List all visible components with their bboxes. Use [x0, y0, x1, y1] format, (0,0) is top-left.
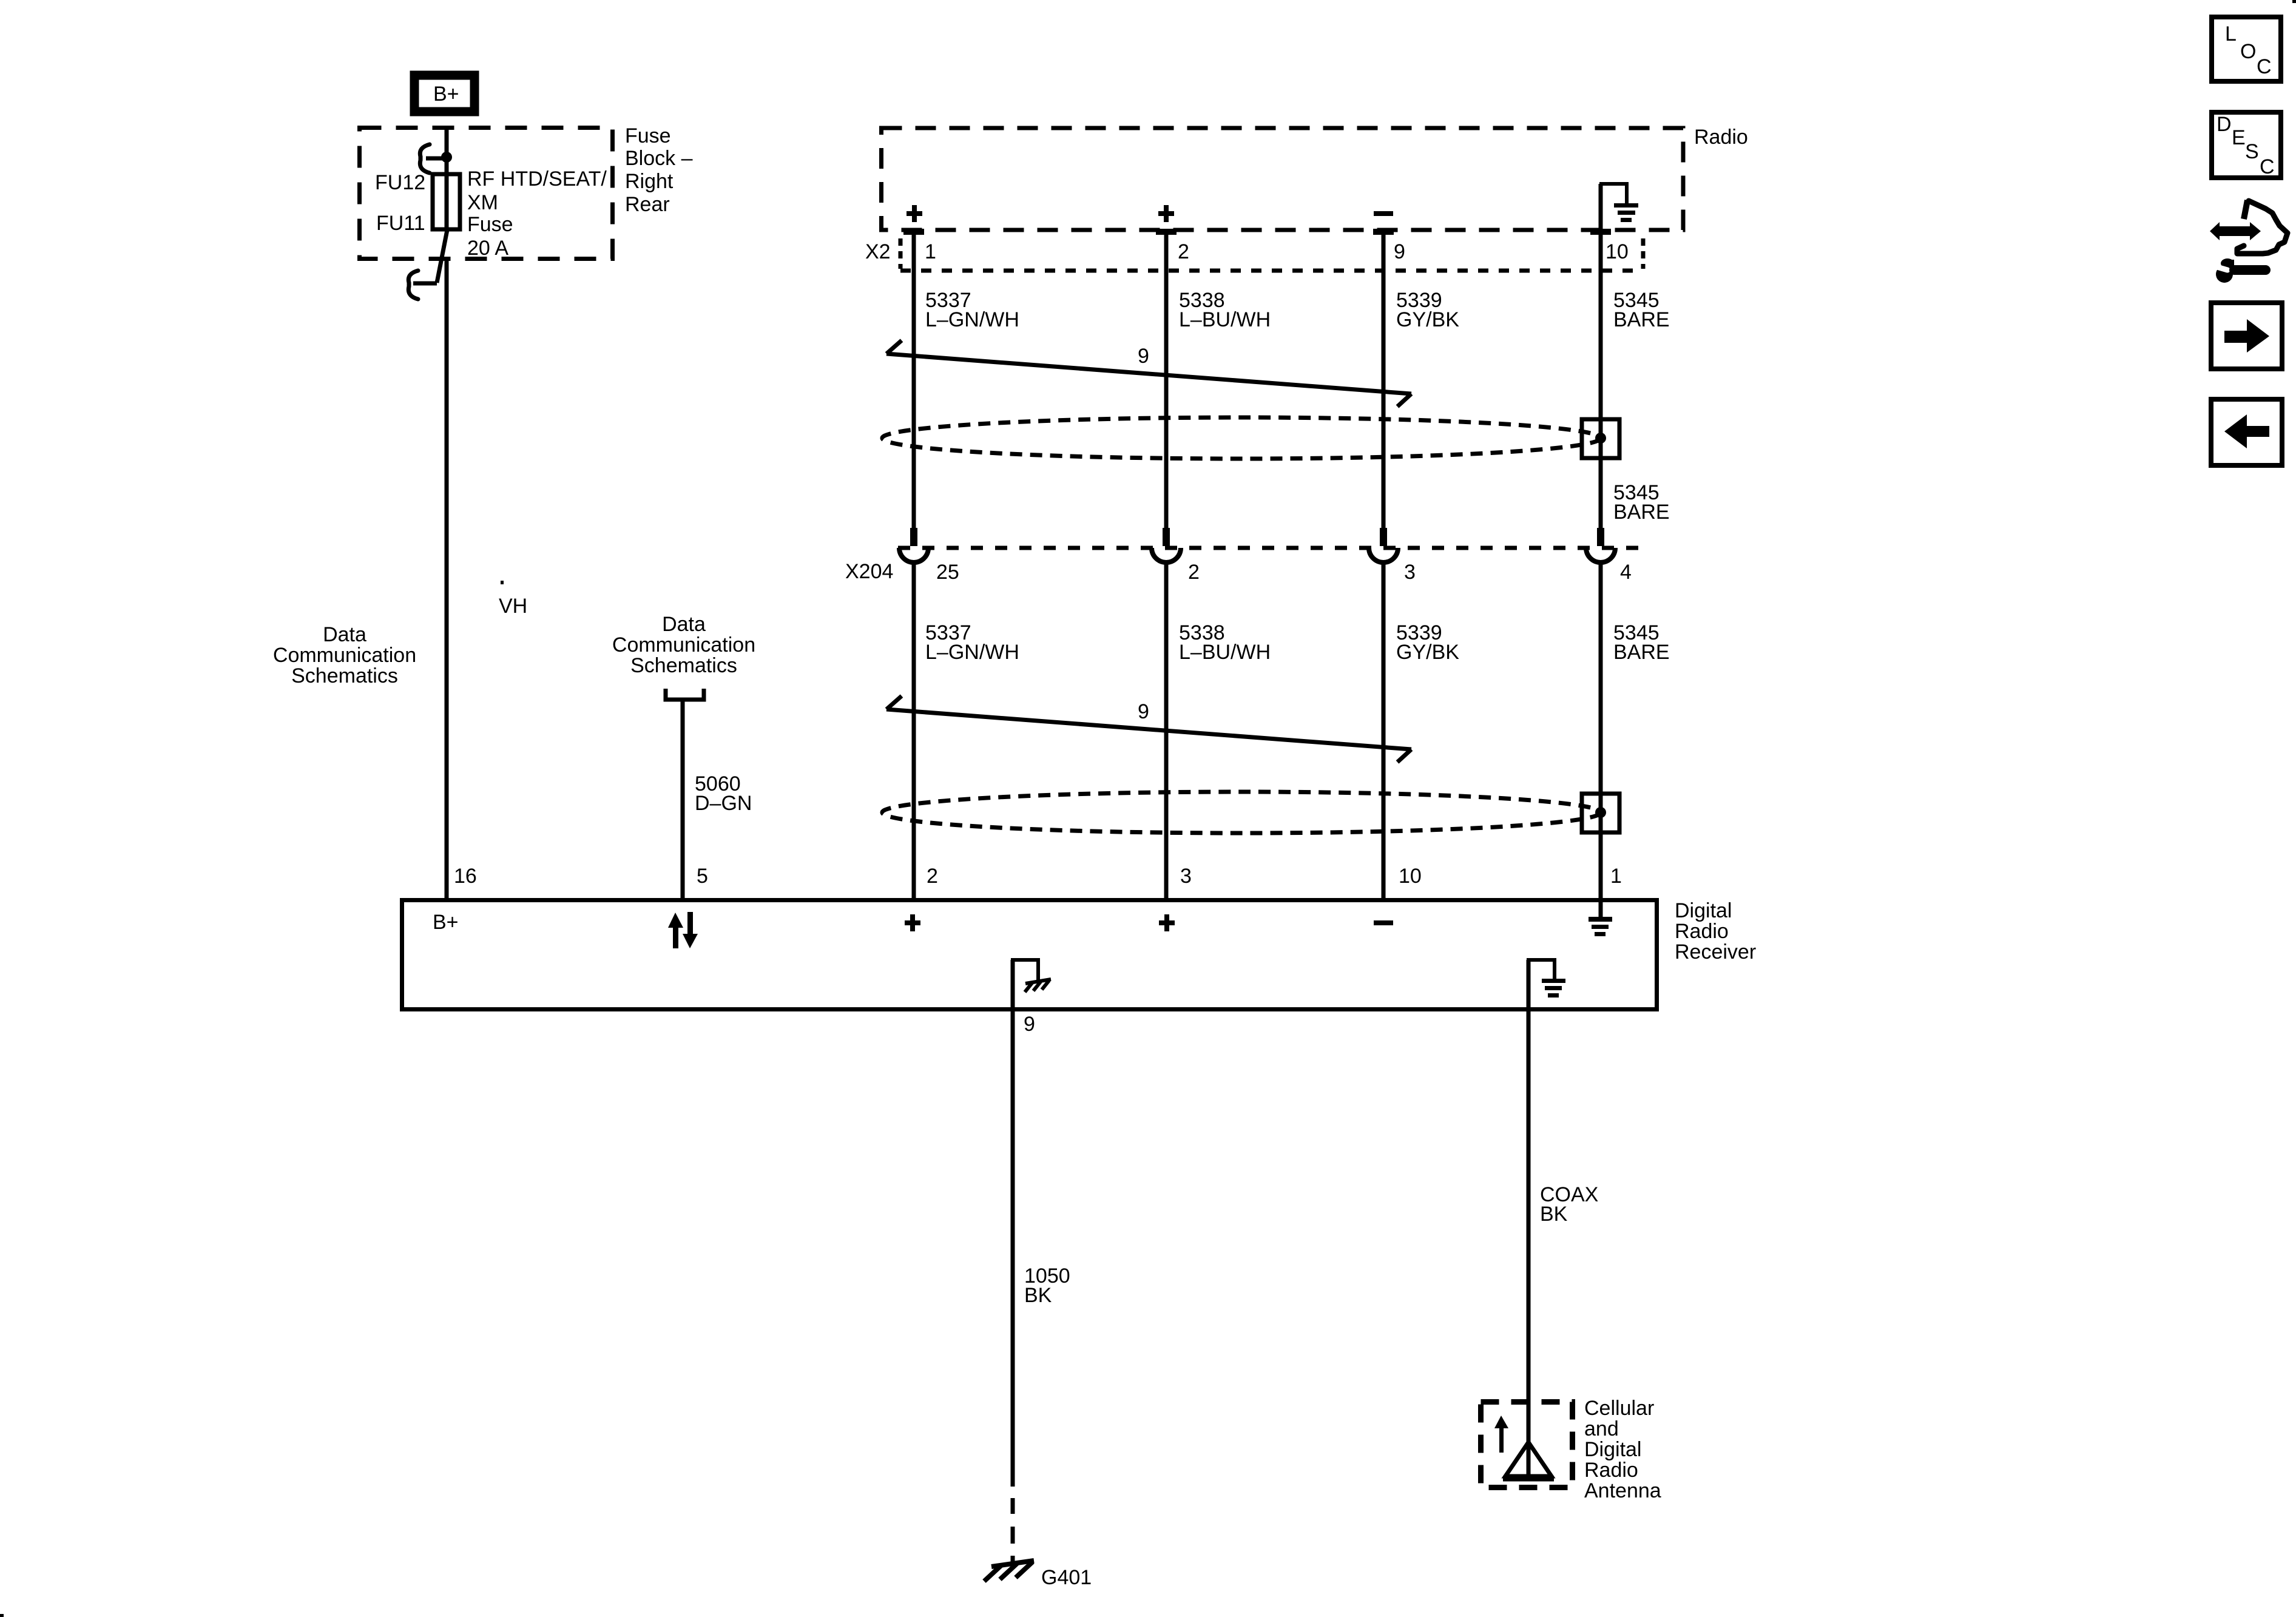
svg-text:BARE: BARE	[1613, 641, 1670, 664]
svg-text:and: and	[1584, 1417, 1619, 1440]
svg-text:Fuse: Fuse	[625, 124, 671, 147]
svg-text:X204: X204	[845, 560, 893, 583]
svg-text:Data: Data	[662, 613, 706, 636]
svg-text:L–GN/WH: L–GN/WH	[925, 308, 1019, 331]
svg-text:L–GN/WH: L–GN/WH	[925, 641, 1019, 664]
svg-text:X2: X2	[865, 240, 891, 263]
svg-text:Radio: Radio	[1584, 1459, 1638, 1482]
svg-text:3: 3	[1404, 561, 1416, 584]
svg-text:Radio: Radio	[1675, 920, 1729, 943]
svg-text:VH: VH	[499, 595, 527, 618]
svg-text:Schematics: Schematics	[630, 654, 737, 677]
svg-text:Digital: Digital	[1675, 899, 1732, 922]
svg-text:9: 9	[1024, 1013, 1035, 1036]
svg-text:G401: G401	[1041, 1566, 1092, 1589]
svg-text:GY/BK: GY/BK	[1396, 308, 1459, 331]
svg-text:9: 9	[1138, 700, 1149, 723]
svg-text:BK: BK	[1540, 1203, 1568, 1226]
svg-text:Data: Data	[323, 623, 366, 646]
svg-text:Fuse: Fuse	[467, 213, 513, 236]
svg-text:D–GN: D–GN	[695, 792, 752, 815]
svg-text:9: 9	[1138, 345, 1149, 368]
svg-text:Communication: Communication	[273, 644, 416, 667]
svg-text:5: 5	[697, 865, 708, 888]
svg-text:L–BU/WH: L–BU/WH	[1179, 308, 1271, 331]
svg-text:Rear: Rear	[625, 193, 670, 216]
svg-text:Antenna: Antenna	[1584, 1479, 1661, 1502]
svg-text:16: 16	[454, 865, 477, 888]
svg-text:S: S	[2245, 140, 2259, 163]
svg-text:Communication: Communication	[612, 633, 755, 657]
svg-text:GY/BK: GY/BK	[1396, 641, 1459, 664]
svg-text:L–BU/WH: L–BU/WH	[1179, 641, 1271, 664]
svg-text:L: L	[2225, 22, 2237, 46]
svg-text:25: 25	[936, 561, 959, 584]
svg-text:C: C	[2260, 155, 2275, 178]
svg-text:RF HTD/SEAT/: RF HTD/SEAT/	[467, 167, 607, 191]
svg-text:Block –: Block –	[625, 147, 693, 170]
svg-text:O: O	[2240, 40, 2256, 63]
svg-text:B+: B+	[433, 83, 459, 106]
svg-text:BARE: BARE	[1613, 308, 1670, 331]
svg-text:10: 10	[1399, 865, 1422, 888]
svg-text:10: 10	[1606, 240, 1629, 263]
svg-text:1: 1	[1610, 865, 1622, 888]
svg-text:E: E	[2232, 126, 2246, 149]
svg-text:XM: XM	[467, 191, 498, 214]
svg-text:BARE: BARE	[1613, 501, 1670, 524]
svg-text:FU12: FU12	[375, 171, 425, 194]
svg-text:Schematics: Schematics	[291, 664, 398, 687]
svg-text:BK: BK	[1024, 1284, 1052, 1307]
svg-text:Right: Right	[625, 170, 674, 193]
svg-text:D: D	[2217, 113, 2232, 136]
svg-text:C: C	[2257, 55, 2272, 78]
svg-text:Cellular: Cellular	[1584, 1397, 1654, 1420]
svg-text:3: 3	[1180, 865, 1192, 888]
svg-text:2: 2	[1188, 561, 1200, 584]
svg-text:Radio: Radio	[1694, 126, 1748, 149]
svg-text:2: 2	[927, 865, 938, 888]
svg-text:2: 2	[1178, 240, 1189, 263]
svg-text:4: 4	[1620, 561, 1632, 584]
svg-text:B+: B+	[433, 911, 459, 934]
svg-text:9: 9	[1394, 240, 1405, 263]
svg-text:Digital: Digital	[1584, 1438, 1641, 1461]
svg-text:1: 1	[925, 240, 936, 263]
svg-text:Receiver: Receiver	[1675, 940, 1756, 964]
svg-text:FU11: FU11	[376, 212, 425, 235]
svg-text:20 A: 20 A	[467, 237, 508, 260]
